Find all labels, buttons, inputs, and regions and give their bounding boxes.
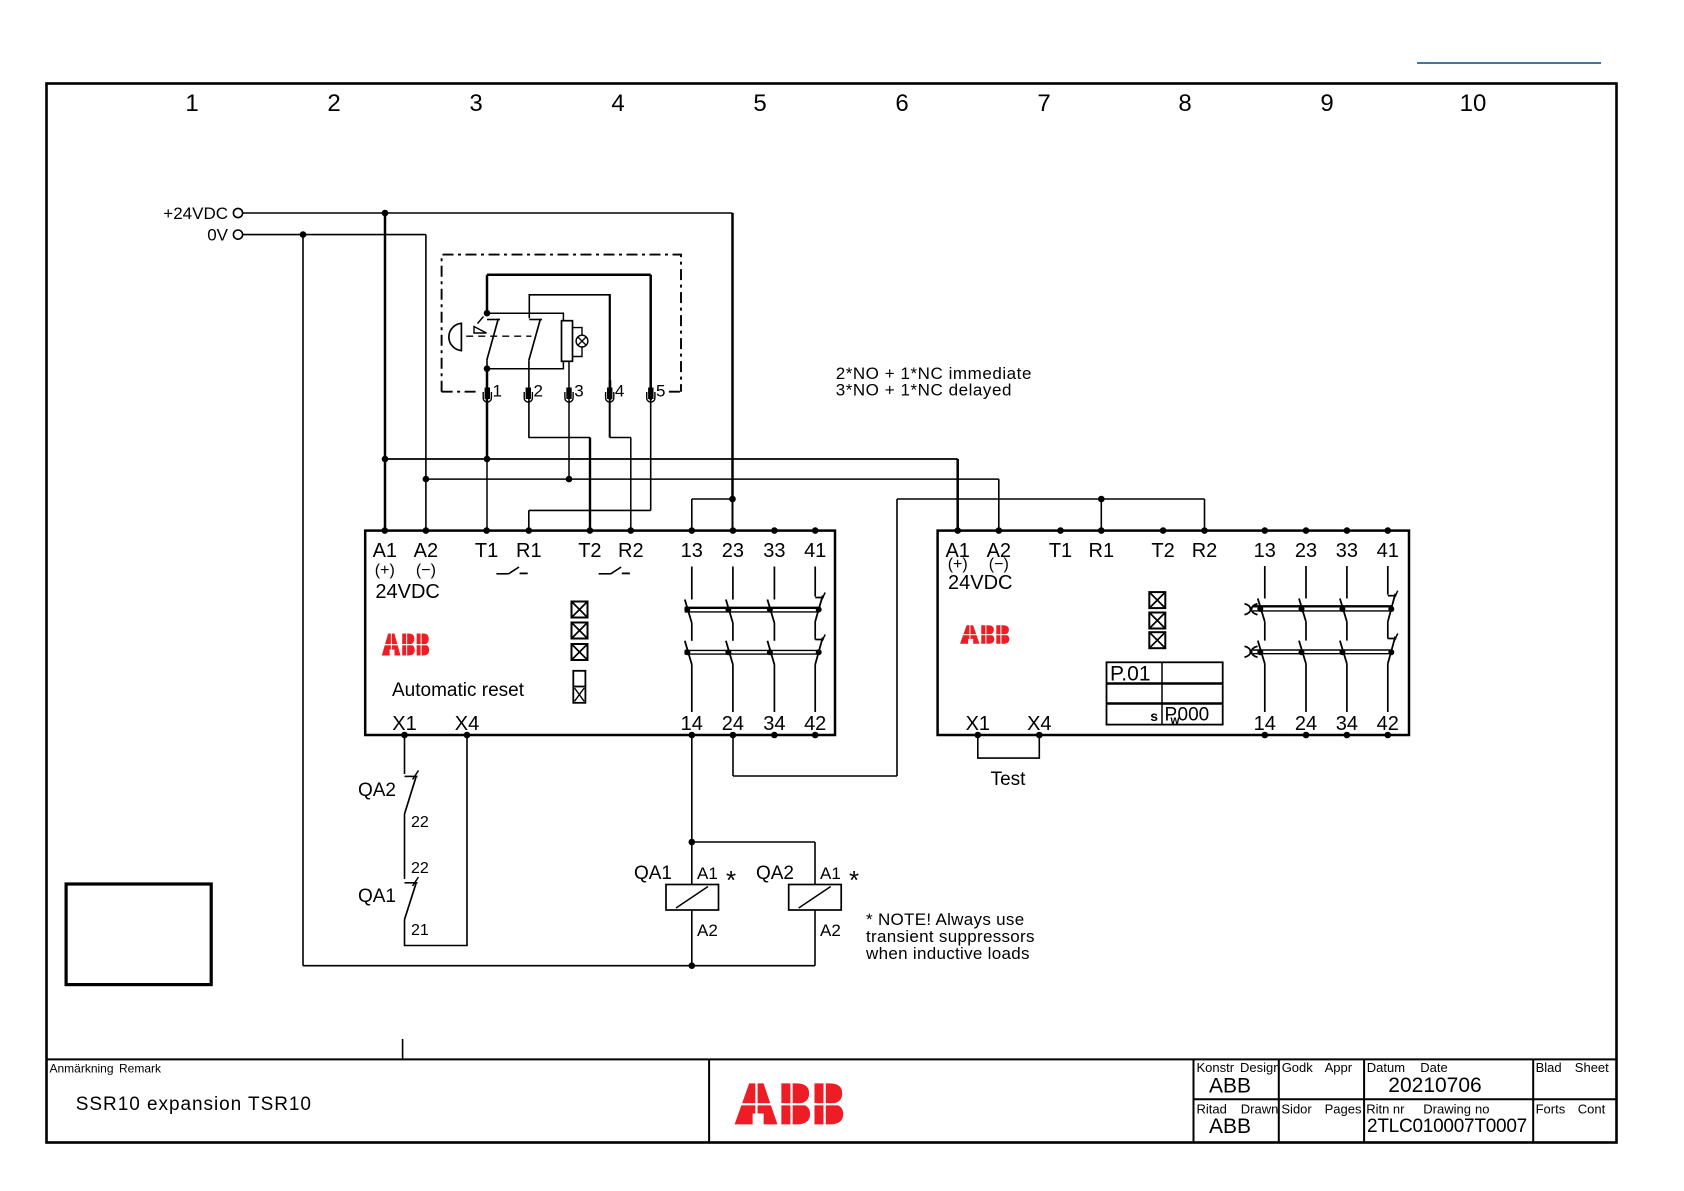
svg-text:13: 13 [1254,540,1276,562]
svg-text:4: 4 [615,382,624,401]
svg-text:(−): (−) [416,562,436,579]
svg-text:(+): (+) [948,556,968,573]
svg-text:22: 22 [411,860,429,877]
svg-text:1: 1 [493,382,502,401]
svg-text:3*NO + 1*NC delayed: 3*NO + 1*NC delayed [836,381,1012,400]
svg-text:10: 10 [1460,90,1487,117]
svg-text:when inductive loads: when inductive loads [865,944,1030,963]
svg-text:21: 21 [411,922,429,939]
svg-text:5: 5 [753,90,766,117]
svg-text:R2: R2 [618,540,644,562]
svg-text:Ritn: Ritn [1366,1102,1389,1117]
svg-text:24VDC: 24VDC [375,581,439,603]
svg-text:T1: T1 [475,540,498,562]
svg-text:R2: R2 [1192,540,1218,562]
svg-text:QA2: QA2 [358,780,396,801]
svg-text:2: 2 [534,382,543,401]
svg-text:22: 22 [411,814,429,831]
svg-text:33: 33 [763,540,785,562]
svg-text:*: * [849,865,859,895]
svg-text:8: 8 [1178,90,1191,117]
svg-text:Design: Design [1240,1060,1280,1075]
svg-text:ABB: ABB [1209,1074,1251,1097]
svg-text:2TLC010007T0007: 2TLC010007T0007 [1367,1116,1527,1137]
svg-text:Drawing: Drawing [1423,1102,1471,1117]
svg-text:Automatic reset: Automatic reset [392,680,525,701]
svg-text:QA1: QA1 [358,886,396,907]
svg-text:T1: T1 [1049,540,1072,562]
svg-text:P.01: P.01 [1110,663,1151,686]
svg-text:R1: R1 [1089,540,1115,562]
svg-text:Test: Test [991,769,1027,790]
svg-text:(−): (−) [989,556,1009,573]
svg-text:Datum: Datum [1367,1060,1405,1075]
svg-text:QA2: QA2 [756,863,794,884]
svg-text:Cont: Cont [1578,1102,1606,1117]
svg-text:R1: R1 [516,540,542,562]
svg-text:Sheet: Sheet [1575,1060,1609,1075]
svg-text:13: 13 [681,540,703,562]
svg-text:Remark: Remark [119,1062,162,1076]
svg-text:23: 23 [722,540,744,562]
svg-text:Forts: Forts [1536,1102,1566,1117]
svg-text:s: s [1150,708,1158,724]
svg-text:SSR10 expansion TSR10: SSR10 expansion TSR10 [76,1094,312,1115]
svg-text:Date: Date [1420,1060,1447,1075]
svg-text:20210706: 20210706 [1388,1074,1481,1097]
svg-text:Blad: Blad [1536,1060,1562,1075]
svg-text:T2: T2 [578,540,601,562]
svg-text:Godk: Godk [1282,1060,1314,1075]
svg-text:Pages: Pages [1325,1102,1362,1117]
svg-text:QA1: QA1 [634,863,672,884]
svg-text:A1: A1 [373,540,397,562]
svg-text:0V: 0V [207,226,228,245]
svg-text:6: 6 [895,90,908,117]
svg-text:41: 41 [804,540,826,562]
svg-text:3: 3 [574,382,583,401]
svg-text:7: 7 [1037,90,1050,117]
svg-text:000: 000 [1178,705,1210,726]
svg-text:+24VDC: +24VDC [163,204,228,223]
svg-text:(+): (+) [375,562,395,579]
svg-text:A1: A1 [820,864,841,883]
svg-text:24VDC: 24VDC [948,572,1012,594]
svg-text:A2: A2 [820,921,841,940]
svg-text:9: 9 [1320,90,1333,117]
svg-text:A1: A1 [697,864,718,883]
svg-text:33: 33 [1336,540,1358,562]
svg-text:23: 23 [1295,540,1317,562]
svg-text:ABB: ABB [1209,1115,1251,1138]
svg-text:Anmärkning: Anmärkning [50,1062,114,1076]
svg-text:Sidor: Sidor [1281,1102,1312,1117]
svg-text:Konstr: Konstr [1197,1060,1235,1075]
svg-text:A2: A2 [697,921,718,940]
svg-text:T2: T2 [1151,540,1174,562]
svg-text:nr: nr [1393,1102,1405,1117]
svg-text:A2: A2 [414,540,438,562]
svg-text:5: 5 [656,382,665,401]
svg-text:4: 4 [611,90,624,117]
svg-text:2: 2 [327,90,340,117]
svg-text:1: 1 [185,90,198,117]
svg-text:Appr: Appr [1325,1060,1353,1075]
svg-text:41: 41 [1377,540,1399,562]
svg-text:*: * [726,865,736,895]
svg-text:no: no [1475,1102,1489,1117]
svg-text:3: 3 [469,90,482,117]
